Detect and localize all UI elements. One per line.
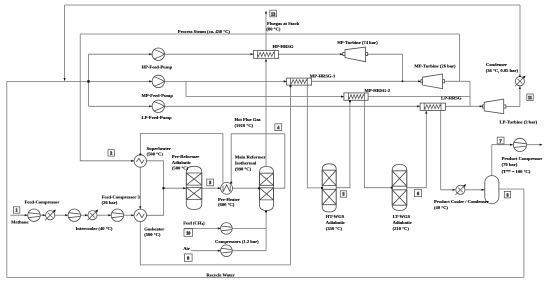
wire HP pump suction (89, 53, 152, 55)
svg-text:Methane: Methane (11, 219, 28, 224)
turbine LP-Turbine (483, 99, 506, 114)
pump LP-Feed-Pump (152, 100, 164, 112)
svg-text:(70 bar): (70 bar) (502, 162, 518, 167)
node stream 7 (497, 137, 504, 144)
wire LP turbine exhaust (506, 105, 520, 107)
wire drum vapor to product compressor (492, 145, 513, 176)
arrow flue into HP-HRSG bottom (265, 59, 267, 62)
hrsg LP-HRSG (420, 103, 445, 110)
svg-text:Recycle Water: Recycle Water (206, 273, 234, 278)
svg-text:LP-HRSG: LP-HRSG (441, 96, 462, 101)
wire MP-HRSG-2 outlet (368, 96, 470, 98)
wire mixed feed to pre-reformer (164, 187, 186, 189)
junction HP exhaust joins MP steam (402, 81, 404, 83)
arrow into HP turbine (340, 53, 343, 55)
heater Gasheater (134, 209, 146, 221)
column LT-WGS (392, 165, 407, 211)
svg-text:(500 °C): (500 °C) (172, 166, 189, 171)
wire HP turbine exhaust (368, 53, 403, 55)
arrow product outlet (540, 144, 543, 146)
wire process steam downcomer (79, 34, 81, 161)
svg-text:(500 °C): (500 °C) (147, 152, 164, 157)
svg-text:MP-Feed-Pump: MP-Feed-Pump (142, 93, 174, 98)
arrow into flash drum (482, 189, 485, 191)
wire drum liquid outlet (499, 188, 524, 190)
svg-text:(210 °C): (210 °C) (393, 226, 410, 231)
wire air compressor outlet (232, 250, 266, 252)
column Main Reformer (260, 167, 274, 211)
arrow gas into LP-HRSG bottom (425, 111, 427, 114)
junction superheater shell inlet (139, 154, 141, 156)
arrow condenser outlet up (519, 74, 521, 77)
svg-text:Adiabatic: Adiabatic (393, 220, 412, 225)
wire MP exhaust downcomer (469, 81, 471, 106)
arrow into condenser bottom (519, 86, 521, 89)
wire condenser outlet riser (519, 5, 521, 77)
node stream 1 (13, 207, 19, 213)
heat-exchanger Pre-Heater (221, 182, 233, 194)
svg-text:12: 12 (271, 11, 275, 16)
svg-text:5: 5 (342, 192, 344, 197)
node stream 3 (207, 179, 214, 186)
svg-text:(26 bar): (26 bar) (102, 200, 118, 205)
svg-text:Process Steam (ca. 430 °C): Process Steam (ca. 430 °C) (178, 29, 231, 34)
svg-text:7: 7 (500, 138, 502, 143)
wire pre-reformer to pre-heater (202, 187, 221, 189)
svg-text:Product Cooler / Condenser: Product Cooler / Condenser (434, 199, 489, 204)
arrow into LP turbine (480, 105, 483, 107)
wire MP-HRSG-1 gas outlet to HT-WGS (307, 85, 322, 188)
wire MP branch down (185, 81, 187, 96)
arrow into HP-HRSG (251, 53, 254, 55)
wire compressor2 to intercooler2 (81, 214, 88, 216)
cooler Product Cooler / Condenser (455, 184, 466, 195)
wire fuel compressor outlet (232, 227, 266, 229)
svg-text:1: 1 (16, 208, 18, 213)
svg-text:Adiabatic: Adiabatic (172, 160, 191, 165)
svg-text:Superheater: Superheater (147, 146, 171, 151)
wire feedwater manifold (7, 80, 152, 82)
compressor Feed-Compressor 3 (111, 209, 123, 221)
svg-text:MP-HRSG-1: MP-HRSG-1 (310, 74, 336, 79)
arrow into intercooler 2 (85, 214, 88, 216)
arrow shell gas into gasheater top (139, 206, 141, 209)
wire pre-heater to main reformer (233, 187, 260, 189)
svg-text:HP-Turbine (74 bar): HP-Turbine (74 bar) (337, 40, 378, 45)
arrow into fuel compressor (218, 227, 221, 229)
wire LP exhaust riser to condenser (519, 86, 521, 106)
wire HP-HRSG to HP turbine (279, 53, 343, 55)
vessel Flash Drum (485, 176, 499, 204)
wire LP-HRSG to LP turbine (446, 105, 483, 107)
arrow into MP-HRSG-2 (341, 96, 344, 98)
svg-text:(40 °C): (40 °C) (434, 205, 448, 210)
wire MP pump to MP-HRSG-1 (165, 80, 287, 82)
node stream 5 (340, 191, 346, 197)
arrow into gasheater (131, 214, 134, 216)
wire recycle water bottom line (7, 276, 524, 278)
svg-text:Product Compressor: Product Compressor (502, 156, 543, 161)
svg-text:LP-Turbine (3 bar): LP-Turbine (3 bar) (500, 120, 538, 125)
arrow into feed compressor 2 (65, 214, 68, 216)
wire condensate downcomer left (64, 5, 66, 81)
wire recycle water left riser (6, 81, 8, 277)
svg-text:(500 °C): (500 °C) (144, 232, 161, 237)
svg-text:MP-HRSG-2: MP-HRSG-2 (365, 88, 391, 93)
arrow into LP pump (149, 105, 152, 107)
svg-text:8: 8 (506, 193, 508, 198)
wire gasheater outlet (147, 161, 164, 216)
wire compressor1 to intercooler1 (40, 214, 45, 216)
arrow into HP pump (149, 53, 152, 55)
node stream 8 (504, 191, 510, 198)
svg-text:3: 3 (209, 180, 211, 185)
arrow into feed compressor 3 (108, 214, 111, 216)
column HT-WGS (322, 164, 336, 212)
wire fuel line (184, 227, 220, 229)
svg-text:(36 °C, 0.05 bar): (36 °C, 0.05 bar) (486, 68, 519, 73)
svg-text:Feed-Compressor 3: Feed-Compressor 3 (102, 194, 141, 199)
svg-text:HT-WGS: HT-WGS (326, 214, 345, 219)
compressor Air Compressor (221, 245, 233, 257)
svg-text:Condenser: Condenser (486, 62, 507, 67)
wire flue riser reformer to HP-HRSG (265, 59, 267, 166)
arrow condensate into manifold (64, 78, 66, 81)
junction pump manifold split (87, 80, 89, 82)
arrow steam into superheater (131, 160, 134, 162)
wire steam to superheater (80, 160, 133, 162)
compressor Fuel Compressor (221, 223, 233, 235)
wire recycle water right riser (523, 189, 525, 277)
wire LP pump suction (89, 105, 152, 107)
arrow into product cooler (453, 189, 456, 191)
svg-text:LP-Feed-Pump: LP-Feed-Pump (142, 115, 173, 120)
hrsg HP-HRSG (253, 51, 278, 59)
wire LT-WGS outlet to LP-HRSG (407, 111, 427, 188)
svg-text:(Tout = 100 °C): (Tout = 100 °C) (502, 168, 531, 173)
arrow into feed compressor 1 (25, 214, 28, 216)
wire superheater shell to gasheater (139, 167, 141, 209)
node stream 10 (184, 229, 193, 237)
arrow into LP-HRSG (417, 105, 420, 107)
wire pre-heater shell outlet riser (141, 134, 223, 183)
arrow into MP pump (149, 80, 152, 82)
wire gasheater shell outlet duct (140, 86, 290, 265)
svg-text:Feed-Compressor: Feed-Compressor (25, 200, 60, 205)
svg-text:10: 10 (186, 230, 190, 235)
arrow into MP turbine (418, 80, 421, 82)
svg-text:11: 11 (528, 95, 532, 100)
turbine MP-Turbine (421, 74, 445, 89)
wire condensate top loop (65, 4, 520, 6)
hrsg MP-HRSG-2 (344, 93, 368, 100)
heater Superheater (134, 155, 146, 167)
svg-text:Isothermal: Isothermal (235, 161, 257, 166)
svg-text:Air: Air (183, 246, 190, 251)
junction reformer burner port (265, 211, 267, 213)
wire MP branch to MP-HRSG-2 (186, 96, 343, 98)
wire MP-HRSG-2 gas outlet to LT-WGS (364, 100, 391, 187)
wire MP turbine exhaust (445, 80, 470, 82)
hrsg MP-HRSG-1 (287, 78, 312, 85)
wire product cooler to flash drum (465, 189, 484, 191)
node stream 9 (184, 254, 192, 261)
svg-text:Compressors (1.2 bar): Compressors (1.2 bar) (215, 239, 259, 244)
svg-text:(350 °C): (350 °C) (326, 226, 343, 231)
arrow flue at stack (265, 11, 267, 14)
wire LP pump to LP-HRSG (165, 105, 420, 107)
svg-text:Hot Flue Gas: Hot Flue Gas (235, 117, 261, 122)
junction MP-HRSG-2 gas inlet (349, 100, 351, 102)
wire steam tap down to MP turbine exhaust (459, 34, 461, 81)
junction MP-HRSG-1 gas inlet (290, 85, 292, 87)
wire HP exhaust downcomer (402, 54, 404, 81)
wire reformer syngas outlet loop (231, 134, 285, 188)
arrow into intercooler 1 (43, 214, 46, 216)
svg-text:9: 9 (187, 255, 189, 260)
svg-text:(600 °C): (600 °C) (218, 202, 235, 207)
wire product outlet (527, 144, 541, 146)
column Pre-Reformer (186, 166, 202, 209)
node stream 2 (108, 150, 114, 156)
compressor Feed-Compressor 1 (28, 209, 40, 221)
wire HP pump to HP-HRSG (165, 53, 253, 55)
arrow into pre-reformer (183, 187, 186, 189)
cooler Intercooler (40 C) (88, 210, 99, 221)
cooler Condenser (515, 76, 526, 87)
svg-text:2: 2 (110, 151, 112, 156)
wire MP-HRSG-1 to MP turbine (312, 80, 421, 82)
wire intercooler2 to compressor3 (97, 214, 111, 216)
node stream 6 (415, 189, 422, 196)
junction LT-WGS inlet (391, 187, 393, 189)
svg-text:Intercooler (40 °C): Intercooler (40 °C) (76, 226, 113, 231)
svg-text:MP-Turbine (26 bar): MP-Turbine (26 bar) (414, 64, 456, 69)
junction HT-WGS inlet (321, 187, 323, 189)
svg-text:Gasheater: Gasheater (144, 227, 164, 232)
wire process steam header (80, 33, 459, 35)
junction steam-feed mixing point (162, 187, 164, 189)
arrow into air compressor (218, 250, 221, 252)
node stream 11 (527, 94, 533, 100)
svg-text:HP-Feed-Pump: HP-Feed-Pump (142, 65, 173, 70)
wire methane feed (10, 214, 27, 216)
arrow into MP-HRSG-1 (284, 80, 287, 82)
compressor Feed-Compressor 2 (68, 209, 80, 221)
arrow into pre-heater (218, 187, 221, 189)
compressor Product Compressor (513, 138, 526, 151)
wire compressor3 to gasheater (124, 214, 134, 216)
wire air line (191, 250, 220, 252)
svg-text:6: 6 (417, 191, 419, 196)
pump MP-Feed-Pump (152, 75, 164, 87)
arrow into product compressor (510, 144, 513, 146)
turbine HP-Turbine (343, 47, 368, 62)
svg-text:(990 °C): (990 °C) (235, 166, 252, 171)
node stream 4 (275, 124, 282, 131)
junction reformer feed inlet (258, 187, 260, 189)
svg-text:(1010 °C): (1010 °C) (235, 123, 254, 128)
wire flue to stack (265, 12, 267, 51)
svg-text:Pre-Reformer: Pre-Reformer (172, 154, 199, 159)
svg-text:Adiabatic: Adiabatic (326, 220, 345, 225)
pump HP-Feed-Pump (152, 48, 164, 60)
node stream 12 (270, 10, 277, 17)
wire LP-HRSG gas outlet to product cooler (441, 110, 455, 189)
svg-text:HP-HRSG: HP-HRSG (273, 44, 294, 49)
junction pre-heater shell inlet (230, 182, 232, 184)
cooler intercooler 1 (45, 210, 56, 221)
wire burner feed riser (265, 211, 267, 250)
svg-text:(80 °C): (80 °C) (266, 26, 280, 31)
svg-text:LT-WGS: LT-WGS (393, 214, 411, 219)
wire intercooler1 to compressor2 (55, 214, 68, 216)
wire pump manifold vertical (88, 54, 90, 106)
wire HT-WGS outlet to MP-HRSG-2 (336, 101, 350, 188)
svg-text:Main Reformer: Main Reformer (235, 155, 266, 160)
